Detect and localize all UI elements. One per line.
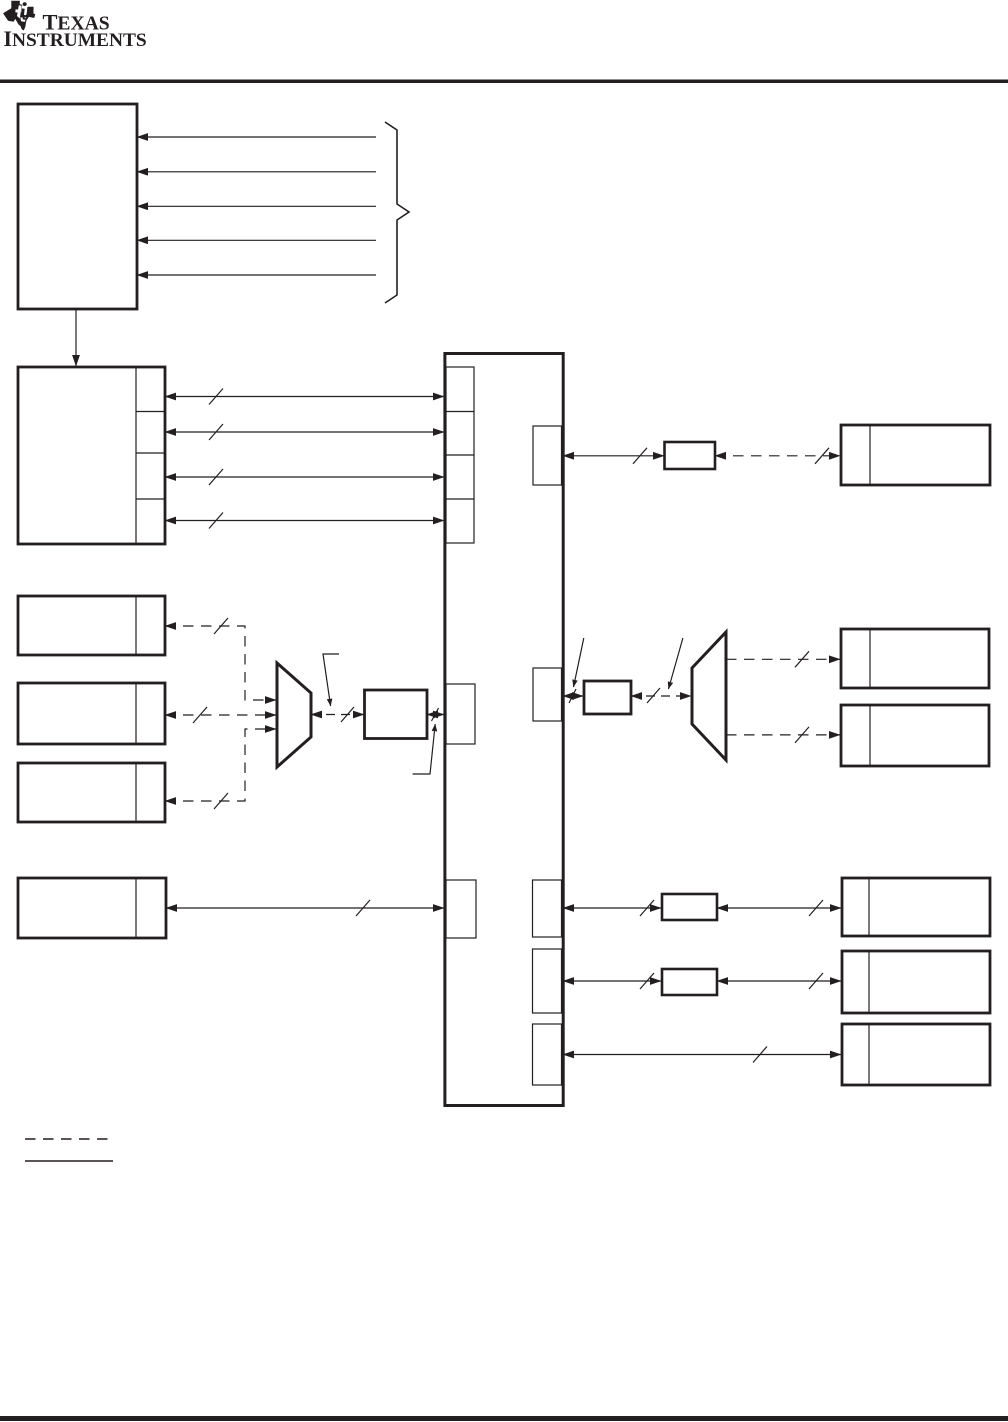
block R1 xyxy=(841,425,990,485)
wire A to B xyxy=(75,309,77,366)
block R4 xyxy=(842,951,990,1013)
leader callout 1 xyxy=(323,654,339,706)
wire bus to H2 (row 4) xyxy=(563,973,661,989)
bus left port column xyxy=(446,367,474,543)
block U1 xyxy=(365,690,428,739)
Texas Instruments logo bug xyxy=(3,1,35,31)
block D xyxy=(18,878,166,938)
wire H1 to R3 xyxy=(717,900,841,916)
block R5 xyxy=(842,1024,990,1085)
bus right port R2 xyxy=(533,668,562,721)
block H2 xyxy=(662,969,717,995)
bus left port (memory row) xyxy=(446,880,476,938)
dashed wire C1 to mux M1 xyxy=(165,618,276,700)
header rule xyxy=(0,80,1008,84)
leader callout 3 xyxy=(574,638,584,687)
leader callout 4 xyxy=(669,638,683,689)
dashed wire C2 to mux M1 xyxy=(165,707,276,723)
mux M2 xyxy=(692,632,726,760)
wire A input 4 xyxy=(137,239,376,241)
block C2 xyxy=(18,683,165,744)
wire D to bus xyxy=(166,900,444,916)
dashed wire E to mux M2 xyxy=(631,688,691,703)
block G1 xyxy=(841,629,989,688)
legend dashed line xyxy=(25,1138,110,1140)
wire bus to U2 (row 1) xyxy=(563,448,664,464)
block H1 xyxy=(662,894,717,920)
dashed wire M2 to G2 xyxy=(726,727,840,743)
wire A input 3 xyxy=(137,205,376,207)
leader callout 2 xyxy=(413,724,436,774)
block C1 xyxy=(18,596,165,655)
central bus block xyxy=(445,354,563,1106)
dashed wire M2 to G1 xyxy=(726,651,840,667)
legend solid line xyxy=(25,1160,113,1162)
wire H2 to R4 xyxy=(717,973,841,989)
wire A input 1 xyxy=(137,136,376,138)
wire U1 to bus xyxy=(427,708,444,721)
bus right port R4 xyxy=(533,949,562,1013)
brace xyxy=(385,122,409,303)
block U2 xyxy=(665,442,716,469)
bus right port R1 xyxy=(533,426,562,485)
wire B-bus 4 xyxy=(165,513,444,529)
wire B-bus 3 xyxy=(165,469,444,485)
block E xyxy=(584,681,631,714)
wire bus to H1 (row 3) xyxy=(563,900,661,916)
wire bus to E xyxy=(563,689,583,703)
wire A input 2 xyxy=(137,171,376,173)
bus right port R3 xyxy=(533,880,562,937)
block A (top left) xyxy=(18,104,137,309)
dashed wire C3 to mux M1 xyxy=(165,729,276,809)
wire A input 5 xyxy=(137,274,376,276)
bus left port (clock row) xyxy=(446,684,475,744)
block C3 xyxy=(18,763,165,822)
block G2 xyxy=(841,705,989,766)
block R3 xyxy=(842,878,990,936)
dashed wire U2 to R1 xyxy=(715,448,840,464)
svg-text:INSTRUMENTS: INSTRUMENTS xyxy=(4,27,147,51)
footer rule xyxy=(0,1416,1008,1421)
dashed wire M1 to U1 xyxy=(311,707,364,722)
wire B-bus 2 xyxy=(165,424,444,440)
bus right port R5 xyxy=(533,1024,562,1085)
wire B-bus 1 xyxy=(165,389,444,405)
block B xyxy=(18,367,165,544)
mux M1 xyxy=(277,663,311,767)
wire bus to R5 (row 5) xyxy=(563,1047,841,1063)
